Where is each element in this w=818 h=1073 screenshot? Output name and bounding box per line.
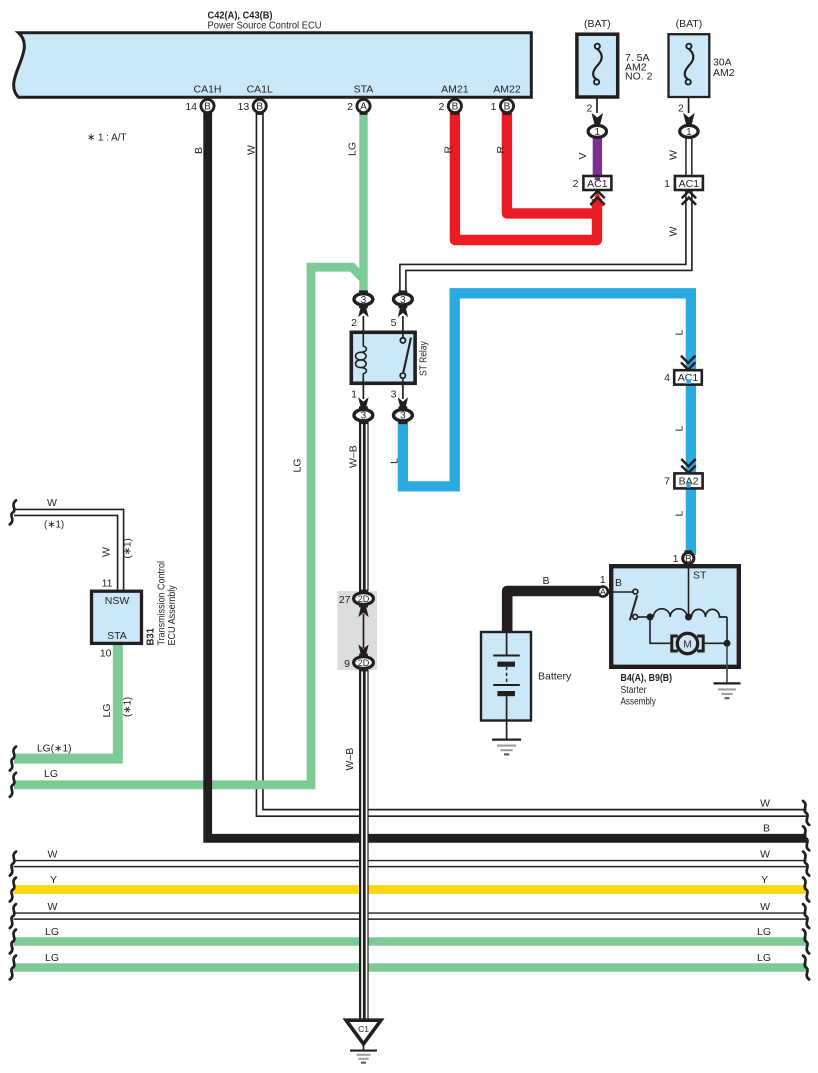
connector oval A pin 1 (starter B terminal) xyxy=(598,587,608,597)
wire W bus (from CA1L) to right edge xyxy=(260,110,807,813)
svg-text:LG: LG xyxy=(292,458,304,472)
starter assembly box B4(A), B9(B) xyxy=(611,566,739,667)
svg-text:W: W xyxy=(48,901,58,913)
svg-text:AM21: AM21 xyxy=(441,84,469,96)
connector 2D pin 9 xyxy=(359,654,368,657)
svg-text:B: B xyxy=(193,147,205,154)
wire LG STA vertical from ECU to ST relay xyxy=(359,110,367,293)
svg-text:STA: STA xyxy=(354,84,374,96)
svg-text:2: 2 xyxy=(678,103,684,115)
svg-text:STA: STA xyxy=(107,630,127,642)
svg-text:2: 2 xyxy=(347,101,353,113)
node ST (starter solenoid input) xyxy=(688,568,690,615)
svg-text:Starter: Starter xyxy=(621,684,647,696)
ECU C42(A), C43(B) Power Source Control ECU box xyxy=(14,33,532,98)
svg-text:9: 9 xyxy=(344,658,350,670)
chevrons into AC1 pin 2 xyxy=(590,191,604,205)
svg-text:A: A xyxy=(360,102,367,113)
svg-text:ECU Assembly: ECU Assembly xyxy=(167,585,178,645)
svg-text:LG: LG xyxy=(757,926,771,938)
svg-text:3: 3 xyxy=(361,411,367,422)
svg-text:2D: 2D xyxy=(358,658,370,668)
svg-text:CA1L: CA1L xyxy=(247,84,273,96)
wire W-B from ST relay pin 1 to ground C1 xyxy=(359,420,369,1020)
arrow into 2D pin 27 xyxy=(358,606,368,617)
svg-text:W: W xyxy=(47,497,57,509)
wire LG bus 2 xyxy=(14,963,808,972)
svg-text:(BAT): (BAT) xyxy=(584,18,611,30)
svg-text:1: 1 xyxy=(686,127,692,138)
svg-text:L: L xyxy=(389,458,401,464)
wire R from AM22 joining AM21 run xyxy=(507,112,592,213)
svg-text:W: W xyxy=(760,901,770,913)
svg-text:14: 14 xyxy=(185,101,197,113)
svg-text:4: 4 xyxy=(664,372,670,384)
battery box xyxy=(481,632,531,721)
svg-text:Y: Y xyxy=(50,874,57,886)
svg-text:10: 10 xyxy=(100,647,112,659)
svg-text:B: B xyxy=(452,102,459,113)
svg-text:LG: LG xyxy=(757,952,771,964)
svg-text:L: L xyxy=(674,511,686,517)
junction dot (field coil centre / ST) xyxy=(685,614,692,621)
svg-text:M: M xyxy=(683,639,691,650)
svg-text:L: L xyxy=(674,426,686,432)
svg-text:LG: LG xyxy=(45,952,59,964)
svg-text:Y: Y xyxy=(761,874,768,886)
connector 2D block xyxy=(338,591,378,670)
svg-text:NO. 2: NO. 2 xyxy=(625,71,653,83)
svg-text:W: W xyxy=(48,848,58,860)
svg-text:B31: B31 xyxy=(145,628,157,646)
connector oval 3 (relay pin 1, bottom) xyxy=(362,385,364,399)
svg-text:R: R xyxy=(495,146,507,154)
svg-text:AC1: AC1 xyxy=(679,178,700,190)
svg-text:B4(A), B9(B): B4(A), B9(B) xyxy=(621,672,673,684)
svg-text:(∗1): (∗1) xyxy=(123,538,134,558)
wire V from fuse AM2 NO.2 to AC1 xyxy=(593,137,602,177)
battery cells xyxy=(506,633,508,655)
svg-text:13: 13 xyxy=(238,101,250,113)
junction dot (field coil left) xyxy=(647,614,654,621)
svg-text:Battery: Battery xyxy=(538,670,572,682)
svg-text:5: 5 xyxy=(391,317,397,329)
wire LG bus 1 xyxy=(14,937,808,946)
wire B bus (from CA1H) to right edge xyxy=(208,110,807,838)
ground C1 xyxy=(346,1020,381,1044)
svg-text:3: 3 xyxy=(361,295,367,306)
ECU B31 Transmission Control ECU Assembly box xyxy=(92,591,142,643)
svg-text:11: 11 xyxy=(102,578,113,590)
fuse 30A AM2 xyxy=(669,34,710,97)
svg-text:B: B xyxy=(504,102,511,113)
svg-text:ST: ST xyxy=(693,569,707,581)
svg-text:3: 3 xyxy=(391,389,397,401)
svg-text:A: A xyxy=(600,587,607,598)
svg-text:R: R xyxy=(443,146,455,154)
svg-text:2D: 2D xyxy=(358,594,370,604)
svg-text:LG: LG xyxy=(44,768,58,780)
svg-text:LG: LG xyxy=(45,926,59,938)
arrow into junction oval 1 xyxy=(683,113,695,125)
junction line between 2D connectors xyxy=(363,614,365,648)
svg-text:B: B xyxy=(204,102,211,113)
svg-text:W–B: W–B xyxy=(344,748,356,771)
svg-text:W: W xyxy=(668,227,680,237)
wire LG from STA branch down left side to LG stub xyxy=(14,267,363,785)
svg-text:(∗1): (∗1) xyxy=(123,697,134,717)
svg-text:3: 3 xyxy=(400,411,406,422)
wire W bus 3 xyxy=(14,912,807,920)
svg-text:W: W xyxy=(760,848,770,860)
connector box AC1 pin 2 xyxy=(583,176,611,190)
junction dot (motor right) xyxy=(724,640,731,647)
junction connector oval 1 xyxy=(588,125,606,137)
svg-text:1: 1 xyxy=(673,553,679,565)
svg-text:C1: C1 xyxy=(358,1024,369,1034)
svg-text:AM22: AM22 xyxy=(493,84,521,96)
svg-text:W: W xyxy=(101,547,113,557)
svg-text:AM2: AM2 xyxy=(713,67,735,79)
svg-text:W: W xyxy=(246,145,258,155)
svg-text:NSW: NSW xyxy=(105,595,130,607)
connector oval B pin 1 (starter) xyxy=(685,550,693,553)
svg-text:2: 2 xyxy=(439,101,445,113)
connector box AC1 pin 1 xyxy=(675,176,703,190)
connector oval 3 (relay pin 2, top) xyxy=(362,316,364,331)
pin 2 of fuse 30A AM2 xyxy=(688,97,690,113)
ground (battery) xyxy=(506,722,508,739)
svg-text:B: B xyxy=(763,823,770,835)
wire B from battery to starter terminal A xyxy=(507,591,600,633)
arrow into 2D pin 9 xyxy=(358,644,368,655)
connector 2D pin 27 xyxy=(359,590,368,593)
arrow into junction oval 1 xyxy=(592,113,604,125)
svg-text:(BAT): (BAT) xyxy=(676,18,703,30)
pin 2 of fuse 7.5A AM2 NO.2 xyxy=(596,97,598,113)
ground (starter) xyxy=(726,646,728,683)
wire LG(*1) from B31 pin 10 to left edge xyxy=(14,645,118,759)
svg-text:1: 1 xyxy=(491,101,497,113)
svg-text:B: B xyxy=(685,554,692,565)
svg-text:L: L xyxy=(674,330,686,336)
svg-text:W: W xyxy=(760,798,770,810)
field coil 2 xyxy=(692,609,728,617)
svg-text:ST Relay: ST Relay xyxy=(419,341,430,376)
svg-text:LG(∗1): LG(∗1) xyxy=(37,743,72,754)
connector oval 3 (relay pin 3, bottom) xyxy=(402,385,404,399)
chevrons into BA2 pin 7 xyxy=(681,459,695,473)
svg-text:Power Source Control ECU: Power Source Control ECU xyxy=(208,20,322,32)
relay switch xyxy=(402,333,404,338)
starter switch contact and arm xyxy=(610,591,633,593)
chevrons into AC1 pin 1 xyxy=(682,191,696,205)
chevrons into AC1 pin 4 xyxy=(681,356,695,370)
svg-text:LG: LG xyxy=(101,703,113,717)
svg-text:B: B xyxy=(543,575,550,587)
svg-text:27: 27 xyxy=(339,594,351,606)
wire L from ST relay pin 3 to starter xyxy=(403,293,691,555)
wire W from 30A fuse to AC1 xyxy=(685,137,692,177)
relay coil xyxy=(362,333,367,352)
svg-text:2: 2 xyxy=(351,317,357,329)
relay box ST Relay xyxy=(351,332,415,383)
svg-text:CA1H: CA1H xyxy=(193,84,221,96)
wire Y bus xyxy=(14,885,808,894)
svg-text:2: 2 xyxy=(573,178,579,190)
svg-text:1: 1 xyxy=(595,127,601,138)
connector oval 3 (relay pin 5, top) xyxy=(402,316,404,331)
svg-text:∗ 1 : A/T: ∗ 1 : A/T xyxy=(87,131,127,143)
svg-text:V: V xyxy=(577,152,589,159)
connector box BA2 pin 7 xyxy=(674,473,702,488)
svg-text:(∗1): (∗1) xyxy=(44,519,64,530)
wire W bus 2 xyxy=(14,860,807,868)
svg-text:Assembly: Assembly xyxy=(621,696,657,708)
motor M xyxy=(672,636,678,651)
svg-text:B: B xyxy=(256,102,263,113)
svg-text:B: B xyxy=(615,577,622,589)
svg-text:Transmission Control: Transmission Control xyxy=(157,561,168,646)
svg-text:W: W xyxy=(668,150,680,160)
svg-text:7: 7 xyxy=(664,476,670,488)
motor armature links xyxy=(650,620,671,643)
field coil 1 xyxy=(653,609,687,617)
wire W from AC1 pin1 down and across to ST relay pin 5 xyxy=(403,190,689,295)
wire R from AM21 to AC1 xyxy=(455,112,597,240)
svg-text:3: 3 xyxy=(400,295,406,306)
svg-text:1: 1 xyxy=(351,389,357,401)
wire W from left edge to B31 pin 11 xyxy=(14,512,121,589)
svg-text:1: 1 xyxy=(664,178,670,190)
fuse 7.5A AM2 NO.2 xyxy=(577,34,618,97)
svg-text:2: 2 xyxy=(586,103,592,115)
svg-text:LG: LG xyxy=(347,142,359,156)
svg-text:W–B: W–B xyxy=(348,445,360,468)
junction connector oval 1 xyxy=(680,125,698,137)
svg-text:1: 1 xyxy=(600,574,606,586)
connector box AC1 pin 4 xyxy=(674,370,702,384)
